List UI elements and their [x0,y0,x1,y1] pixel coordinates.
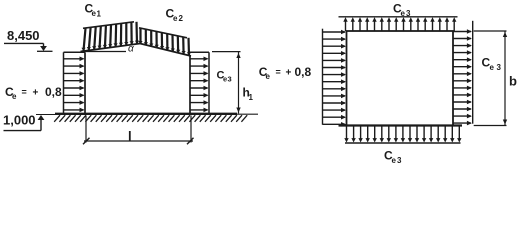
svg-text:=: = [276,67,281,77]
svg-text:1: 1 [97,10,102,19]
svg-text:3: 3 [397,156,402,165]
svg-text:3: 3 [497,63,502,72]
svg-text:=: = [22,87,27,97]
svg-text:3: 3 [228,75,232,84]
svg-text:8,450: 8,450 [7,28,40,43]
svg-text:α: α [128,44,134,55]
svg-text:e: e [392,156,397,165]
svg-text:0,8: 0,8 [295,65,312,79]
svg-text:e: e [12,92,17,101]
svg-text:l: l [128,129,132,144]
svg-text:2: 2 [179,14,184,23]
svg-text:e: e [266,72,271,81]
svg-text:1,000: 1,000 [3,113,36,128]
svg-text:e: e [173,14,178,23]
svg-text:3: 3 [406,9,411,18]
svg-text:e: e [401,9,406,18]
svg-text:+: + [286,68,292,79]
svg-text:1: 1 [249,93,254,102]
svg-text:0,8: 0,8 [45,85,62,99]
svg-text:b: b [509,74,517,89]
svg-text:e: e [490,63,495,72]
svg-text:+: + [33,88,39,99]
